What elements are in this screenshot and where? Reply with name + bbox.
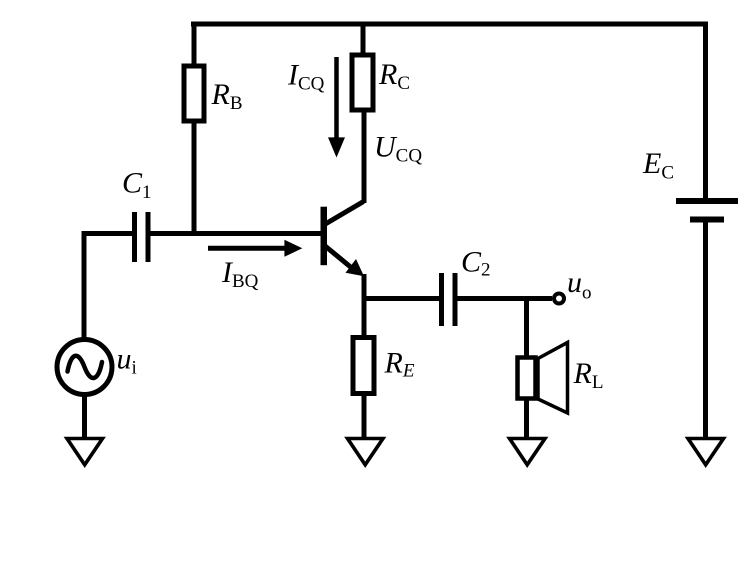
wire input left horizontal — [82, 231, 134, 236]
wire R_C top lead — [361, 24, 366, 55]
source u_i sine wave — [68, 356, 103, 378]
battery E_C short plate — [690, 217, 724, 223]
ground emitter — [348, 439, 384, 465]
resistor R_C — [352, 55, 373, 110]
speaker R_L horn — [538, 343, 568, 414]
wire E_C bottom lead — [703, 222, 708, 438]
transistor Q1 base bar — [321, 207, 328, 266]
wire input left vertical — [82, 231, 87, 341]
transistor Q1 emitter arrowhead — [346, 259, 365, 276]
ground source — [67, 439, 103, 465]
wire E_C vertical top — [703, 24, 708, 198]
wire R_B bottom lead — [192, 121, 197, 236]
source u_i circle — [57, 340, 112, 395]
wire source bottom lead — [82, 393, 87, 438]
wire emitter vertical — [362, 274, 367, 337]
wire R_B top lead — [192, 24, 197, 66]
transistor Q1 collector diagonal — [325, 202, 364, 225]
wire base horizontal — [150, 231, 321, 236]
wire top supply rail — [191, 22, 708, 27]
arrow I_BQ — [208, 246, 286, 251]
ground speaker — [510, 439, 546, 465]
wire collector vertical — [362, 112, 367, 203]
arrow I_CQ — [334, 57, 339, 140]
transistor Q1 emitter diagonal — [325, 246, 354, 270]
capacitor C1 — [135, 212, 149, 262]
wire C2 right to u_o terminal — [457, 296, 552, 301]
resistor R_E — [353, 338, 374, 394]
resistor R_B — [184, 66, 204, 121]
wire speaker branch vertical — [524, 296, 529, 356]
wire speaker bottom lead — [524, 398, 529, 438]
battery E_C long plate — [676, 198, 738, 204]
capacitor C2 — [442, 273, 456, 326]
wire R_E bottom lead — [362, 393, 367, 438]
terminal u_o — [554, 294, 564, 304]
speaker R_L driver box — [518, 358, 536, 399]
wire output horizontal to C2 — [362, 296, 441, 301]
ground E_C — [688, 439, 724, 465]
